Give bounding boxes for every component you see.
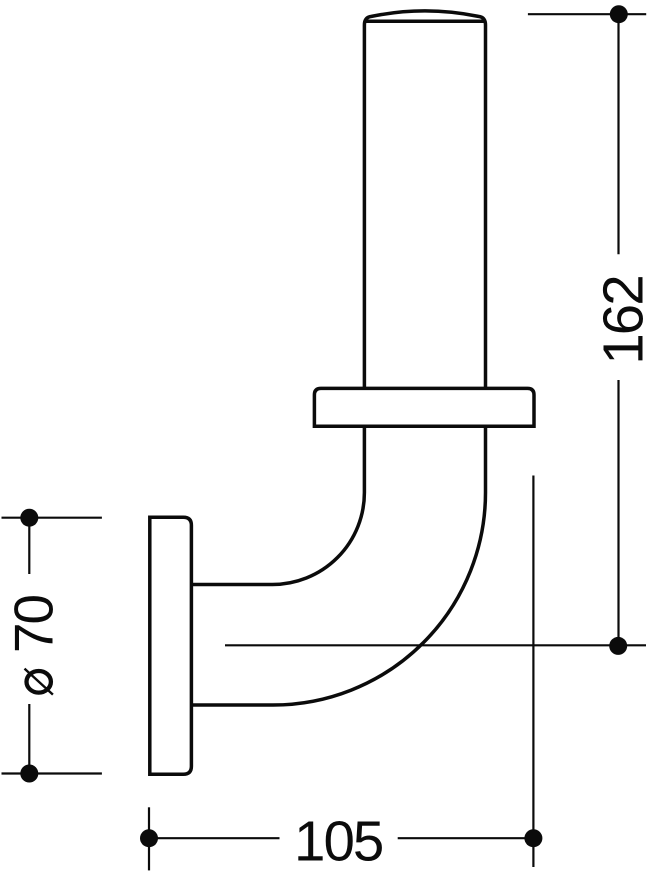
svg-text:70: 70: [2, 596, 64, 654]
dim 70 top dot: [20, 509, 38, 527]
dim 162 vertical line upper segment: [617, 14, 619, 254]
dim 105 horizontal line right segment: [398, 837, 534, 839]
dim 162 top extension line: [528, 13, 646, 15]
wall plate rosette: [150, 517, 192, 774]
dim 70 vertical line upper segment: [28, 518, 30, 574]
dim 105 left dot: [140, 829, 158, 847]
dim 162 vertical line lower segment: [617, 380, 619, 646]
dim 70 vertical line lower segment: [28, 704, 30, 774]
tube lower body outer contour + arm bottom line: [192, 426, 486, 705]
dim 105 right dot: [524, 829, 542, 847]
dim 105 horizontal line left segment: [149, 837, 280, 839]
dim 162 bottom dot: [609, 637, 627, 655]
dim 105 right extension line: [532, 476, 534, 868]
svg-text:105: 105: [294, 809, 383, 872]
collar flange: [314, 388, 534, 426]
centerline of arm: [225, 644, 646, 646]
diameter symbol of dim label ø 70: [25, 669, 53, 695]
roll holder tube upper body: [364, 11, 485, 388]
svg-text:162: 162: [591, 276, 648, 364]
dim 70 bottom extension line: [2, 772, 102, 774]
dim 70 bottom dot: [20, 765, 38, 783]
dim 70 top extension line: [2, 517, 102, 519]
tube lower body inner contour + arm top line: [192, 426, 364, 585]
dim 162 top dot: [610, 5, 628, 23]
dim 105 left extension line: [148, 807, 150, 870]
tube cap edge line: [365, 19, 484, 23]
